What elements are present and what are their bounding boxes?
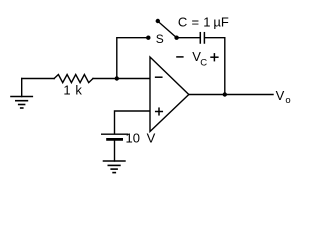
switch S: left terminal — [146, 36, 150, 40]
switch S: pivot terminal — [174, 36, 178, 40]
svg-text:C: C — [200, 57, 207, 68]
svg-text:C=1µF: C=1µF — [178, 15, 229, 30]
capacitor C: left plate — [199, 33, 201, 43]
wire: op-amp output — [189, 94, 273, 96]
svg-text:S: S — [156, 32, 164, 46]
ground (bottom) — [104, 161, 125, 173]
wire: resistor to op-amp inverting input — [93, 78, 150, 80]
wire: battery to ground — [114, 141, 116, 162]
node: inverting input junction — [115, 76, 119, 80]
switch S: blade end dot — [156, 19, 160, 23]
wire: ground to resistor — [22, 78, 54, 80]
svg-text:o: o — [285, 95, 290, 106]
op-amp non-inverting sign + — [156, 108, 163, 115]
svg-text:10V: 10V — [126, 131, 156, 146]
op-amp inverting sign − — [156, 76, 162, 78]
battery 10 V: positive plate — [102, 133, 128, 135]
resistor 1 k — [54, 75, 93, 83]
svg-text:V: V — [276, 88, 285, 103]
wire: junction up to switch — [117, 38, 147, 79]
capacitor C: right plate — [203, 33, 205, 43]
switch S: blade — [159, 22, 177, 38]
wire: capacitor to output node — [206, 38, 225, 95]
label: − VC + (capacitor polarity) — [176, 49, 218, 68]
battery 10 V: negative plate — [108, 138, 122, 141]
wire: switch to capacitor — [177, 37, 200, 39]
op-amp U1 triangle — [150, 57, 189, 132]
svg-text:1k: 1k — [63, 83, 82, 98]
ground (left) — [11, 79, 32, 109]
wire: non-inverting input to battery — [115, 111, 150, 134]
node: output junction — [223, 92, 227, 96]
